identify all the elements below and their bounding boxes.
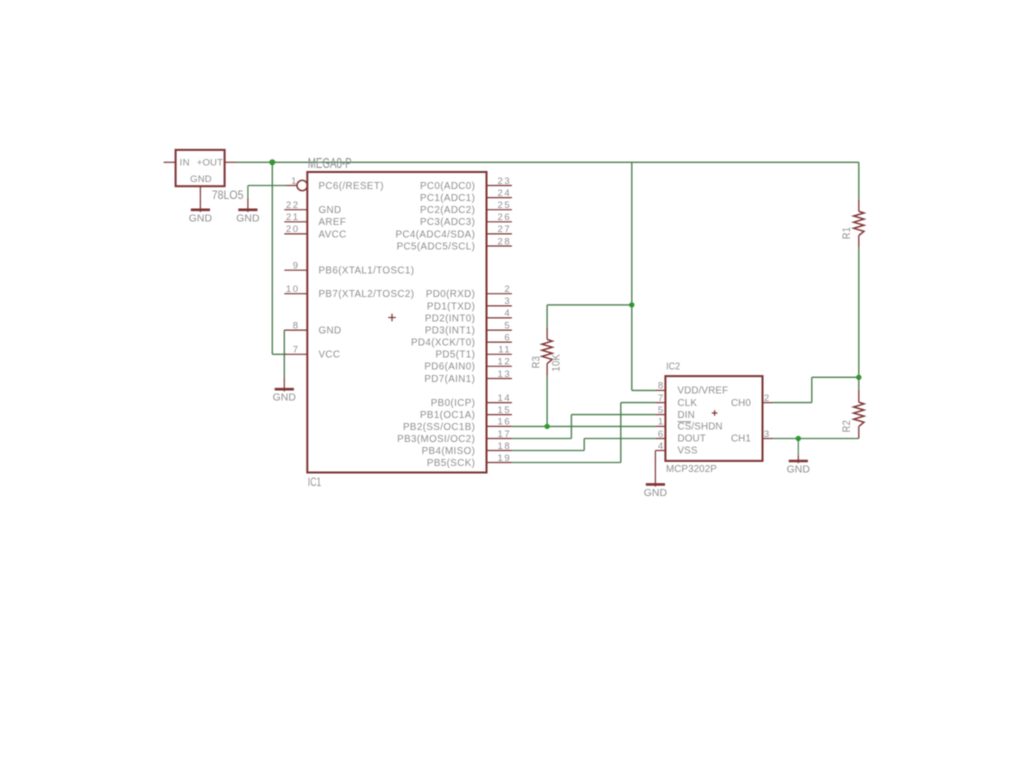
svg-text:3: 3 bbox=[504, 296, 511, 307]
IC1 pin 7 VCC bbox=[284, 345, 340, 361]
svg-text:PD4(XCK/T0): PD4(XCK/T0) bbox=[411, 338, 475, 349]
svg-text:R1: R1 bbox=[841, 227, 853, 239]
label 78L05 value bbox=[212, 189, 244, 202]
svg-text:PC5(ADC5/SCL): PC5(ADC5/SCL) bbox=[397, 241, 476, 252]
svg-text:4: 4 bbox=[658, 441, 665, 452]
svg-text:78LO5: 78LO5 bbox=[212, 189, 244, 202]
IC2 pin 6 DOUT bbox=[655, 429, 705, 445]
svg-text:GND: GND bbox=[787, 465, 810, 476]
wire R1 bottom to junction bbox=[858, 248, 860, 378]
IC1 pin 20 AVCC bbox=[284, 224, 346, 240]
svg-text:VCC: VCC bbox=[319, 350, 341, 361]
svg-text:AREF: AREF bbox=[319, 217, 347, 228]
wire IC1 pin8 to ground bbox=[283, 330, 285, 377]
svg-text:CLK: CLK bbox=[678, 398, 698, 409]
svg-text:GND: GND bbox=[236, 213, 259, 224]
svg-text:24: 24 bbox=[498, 188, 512, 199]
label MEGA8-P bbox=[308, 155, 352, 172]
svg-text:PC0(ADC0): PC0(ADC0) bbox=[420, 181, 475, 192]
IC1 pin 12 PD6(AIN0) bbox=[424, 357, 512, 373]
svg-text:1: 1 bbox=[291, 176, 298, 187]
IC1 pin 4 PD2(INT0) bbox=[425, 308, 512, 324]
svg-text:PC1(ADC1): PC1(ADC1) bbox=[420, 193, 475, 204]
IC1 pin 22 GND bbox=[284, 200, 341, 216]
svg-text:PB2(SS/OC1B): PB2(SS/OC1B) bbox=[403, 422, 475, 433]
wire R3 top branch bbox=[547, 305, 632, 327]
svg-text:9: 9 bbox=[293, 261, 300, 272]
wire PB3/MOSI to DIN bbox=[512, 415, 656, 439]
svg-text:13: 13 bbox=[498, 369, 512, 380]
wire PB5/SCK to CLK bbox=[512, 403, 656, 463]
svg-text:21: 21 bbox=[286, 212, 300, 223]
ground (CH1 net) bbox=[787, 439, 810, 476]
svg-text:26: 26 bbox=[498, 212, 512, 223]
svg-text:GND: GND bbox=[189, 213, 212, 224]
svg-text:CS/SHDN: CS/SHDN bbox=[678, 422, 723, 433]
wire V+ branch down to IC2 VDD bbox=[632, 162, 656, 390]
resistor R3 10K bbox=[531, 327, 563, 375]
node junction at VCC tap bbox=[269, 159, 275, 165]
IC2 pin 7 CLK bbox=[655, 393, 697, 409]
svg-text:PB5(SCK): PB5(SCK) bbox=[427, 458, 475, 469]
svg-text:6: 6 bbox=[504, 332, 511, 343]
svg-text:17: 17 bbox=[498, 429, 512, 440]
IC1 pin 19 PB5(SCK) bbox=[427, 453, 512, 469]
IC1 pin 23 PC0(ADC0) bbox=[420, 176, 512, 192]
wire V+ rail from 78L05 OUT to R1 bbox=[237, 161, 859, 163]
IC1 pin 6 PD4(XCK/T0) bbox=[411, 332, 512, 348]
label IC2 bbox=[666, 361, 680, 373]
svg-text:19: 19 bbox=[498, 453, 512, 464]
svg-text:PB6(XTAL1/TOSC1): PB6(XTAL1/TOSC1) bbox=[319, 266, 415, 277]
resistor R2 bbox=[841, 390, 864, 438]
IC1 pin 14 PB0(ICP) bbox=[431, 393, 512, 409]
svg-text:10K: 10K bbox=[551, 354, 563, 372]
svg-text:5: 5 bbox=[658, 405, 665, 416]
svg-text:GND: GND bbox=[319, 205, 342, 216]
svg-text:PB3(MOSI/OC2): PB3(MOSI/OC2) bbox=[397, 434, 475, 445]
svg-text:GND: GND bbox=[644, 488, 667, 499]
wire CH1 to R2 bottom bbox=[773, 438, 859, 440]
IC1 pin 2 PD0(RXD) bbox=[426, 284, 512, 300]
ground (IC1 GND pin 8) bbox=[273, 377, 296, 404]
svg-text:1: 1 bbox=[658, 417, 665, 428]
label MCP3202P bbox=[666, 464, 717, 475]
ground (78L05 GND pin) bbox=[189, 198, 212, 225]
wire PB4/MISO to DOUT bbox=[512, 439, 656, 451]
svg-text:27: 27 bbox=[498, 224, 512, 235]
IC1 pin 24 PC1(ADC1) bbox=[420, 188, 512, 204]
svg-text:PC3(ADC3): PC3(ADC3) bbox=[420, 217, 475, 228]
IC2 MCP3202P body bbox=[665, 376, 762, 461]
svg-text:PB4(MISO): PB4(MISO) bbox=[422, 446, 476, 457]
svg-text:8: 8 bbox=[293, 320, 300, 331]
svg-text:AVCC: AVCC bbox=[319, 229, 347, 240]
IC1 pin 16 PB2(SS/OC1B) bbox=[403, 417, 512, 433]
svg-text:PD7(AIN1): PD7(AIN1) bbox=[424, 374, 475, 385]
node junction R3 bottom bbox=[544, 424, 549, 429]
svg-text:5: 5 bbox=[504, 320, 511, 331]
svg-text:GND: GND bbox=[190, 174, 212, 185]
svg-text:VSS: VSS bbox=[678, 446, 698, 457]
svg-text:7: 7 bbox=[293, 345, 300, 356]
wire PB2 to CS/SHDN bbox=[512, 425, 656, 427]
svg-text:PB1(OC1A): PB1(OC1A) bbox=[420, 410, 475, 421]
svg-text:PC6(/RESET): PC6(/RESET) bbox=[319, 181, 384, 192]
IC2 pin 5 DIN bbox=[655, 405, 694, 421]
svg-text:14: 14 bbox=[498, 393, 512, 404]
svg-text:2: 2 bbox=[504, 284, 511, 295]
wire reset net from pin1 bubble to ground bbox=[248, 185, 286, 187]
svg-text:CH0: CH0 bbox=[731, 398, 751, 409]
svg-text:IC2: IC2 bbox=[666, 361, 680, 373]
svg-text:25: 25 bbox=[498, 200, 512, 211]
IC1 pin 11 PD5(T1) bbox=[435, 345, 511, 361]
IC1 pin 21 AREF bbox=[284, 212, 346, 228]
svg-text:16: 16 bbox=[498, 417, 512, 428]
IC1 pin 3 PD1(TXD) bbox=[427, 296, 512, 312]
IC1 MEGA8-P body bbox=[307, 172, 486, 473]
svg-text:28: 28 bbox=[498, 236, 512, 247]
IC1 pin 5 PD3(INT1) bbox=[425, 320, 512, 336]
svg-text:PD6(AIN0): PD6(AIN0) bbox=[424, 362, 475, 373]
svg-text:MEGA8-P: MEGA8-P bbox=[308, 155, 352, 172]
svg-text:18: 18 bbox=[498, 441, 512, 452]
IC1 pin 28 PC5(ADC5/SCL) bbox=[397, 236, 512, 252]
svg-text:23: 23 bbox=[498, 176, 512, 187]
svg-text:IC1: IC1 bbox=[308, 477, 322, 490]
svg-text:PB0(ICP): PB0(ICP) bbox=[431, 398, 476, 409]
IC1 pin 17 PB3(MOSI/OC2) bbox=[397, 429, 512, 445]
svg-text:+OUT: +OUT bbox=[197, 158, 223, 169]
IC1 pin 26 PC3(ADC3) bbox=[420, 212, 512, 228]
wire junction to R2 bbox=[858, 377, 860, 390]
ground (IC2 VSS) bbox=[644, 472, 667, 499]
svg-text:6: 6 bbox=[658, 429, 665, 440]
voltage regulator 78L05 bbox=[164, 150, 237, 198]
ground (reset net) bbox=[236, 186, 259, 225]
svg-text:GND: GND bbox=[319, 326, 342, 337]
IC1 pin 9 PB6(XTAL1/TOSC1) bbox=[284, 261, 414, 277]
svg-text:PB7(XTAL2/TOSC2): PB7(XTAL2/TOSC2) bbox=[319, 289, 415, 300]
svg-text:15: 15 bbox=[498, 405, 512, 416]
svg-text:DOUT: DOUT bbox=[678, 434, 706, 445]
wire IC2 VSS to ground bbox=[654, 451, 656, 473]
svg-text:IN: IN bbox=[180, 158, 191, 169]
svg-text:2: 2 bbox=[764, 393, 771, 404]
svg-text:PC4(ADC4/SDA): PC4(ADC4/SDA) bbox=[396, 229, 476, 240]
node junction CH1 ground tap bbox=[796, 436, 801, 441]
svg-text:GND: GND bbox=[273, 393, 296, 404]
wire CH0 to divider tap bbox=[773, 377, 859, 402]
svg-text:PD1(TXD): PD1(TXD) bbox=[427, 301, 475, 312]
svg-text:R2: R2 bbox=[841, 420, 853, 432]
IC2 pin 8 VDD/VREF bbox=[655, 381, 728, 397]
wire R3 bottom to PB2 net bbox=[546, 376, 548, 427]
svg-text:3: 3 bbox=[764, 429, 771, 440]
IC1 pin 25 PC2(ADC2) bbox=[420, 200, 512, 216]
label IC1 bbox=[308, 477, 322, 490]
svg-text:8: 8 bbox=[658, 381, 665, 392]
node junction R3 tap bbox=[629, 302, 634, 307]
IC2 pin 2 CH0 bbox=[731, 393, 773, 409]
svg-text:4: 4 bbox=[504, 308, 511, 319]
IC2 pin 4 VSS bbox=[655, 441, 697, 457]
IC2 pin 3 CH1 bbox=[731, 429, 773, 445]
svg-text:DIN: DIN bbox=[678, 410, 695, 421]
IC1 pin 1 PC6(/RESET) bbox=[286, 176, 384, 192]
svg-text:PD2(INT0): PD2(INT0) bbox=[425, 313, 475, 324]
svg-text:20: 20 bbox=[286, 224, 300, 235]
IC1 pin 27 PC4(ADC4/SDA) bbox=[396, 224, 512, 240]
svg-text:7: 7 bbox=[658, 393, 665, 404]
IC2 pin 1 CS/SHDN bbox=[655, 417, 722, 433]
IC1 pin 15 PB1(OC1A) bbox=[420, 405, 512, 421]
svg-text:PD0(RXD): PD0(RXD) bbox=[426, 289, 475, 300]
resistor R1 bbox=[841, 199, 864, 247]
svg-text:11: 11 bbox=[498, 345, 511, 356]
IC1 pin 8 GND bbox=[284, 320, 341, 336]
node junction R1/R2/CH0 bbox=[856, 375, 861, 380]
svg-text:MCP3202P: MCP3202P bbox=[666, 464, 717, 475]
IC1 pin 18 PB4(MISO) bbox=[422, 441, 512, 457]
svg-text:PD3(INT1): PD3(INT1) bbox=[425, 326, 475, 337]
svg-text:PC2(ADC2): PC2(ADC2) bbox=[420, 205, 475, 216]
wire VCC drop to IC1 pin 7 bbox=[272, 162, 286, 354]
IC1 pin 13 PD7(AIN1) bbox=[424, 369, 512, 385]
svg-text:VDD/VREF: VDD/VREF bbox=[678, 386, 729, 397]
svg-text:22: 22 bbox=[286, 200, 300, 211]
svg-text:12: 12 bbox=[498, 357, 512, 368]
svg-text:R3: R3 bbox=[531, 356, 543, 368]
svg-text:10: 10 bbox=[286, 284, 300, 295]
svg-text:PD5(T1): PD5(T1) bbox=[435, 350, 475, 361]
svg-text:CH1: CH1 bbox=[731, 434, 751, 445]
wire rail corner to R1 bbox=[858, 162, 860, 199]
IC1 pin 10 PB7(XTAL2/TOSC2) bbox=[284, 284, 414, 300]
